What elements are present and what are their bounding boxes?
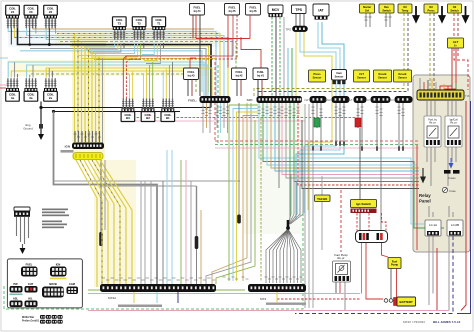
wire bundle: yellow vertical harness (75, 34, 133, 288)
black stripe overlays on yellow wires (15, 34, 227, 286)
wire: stub terminator mid-left (100, 160, 102, 233)
svg-text:Relay: Relay (419, 193, 431, 198)
inline green connector block (314, 118, 320, 127)
cam sensor connector (332, 70, 347, 85)
battery (394, 297, 416, 306)
junction dot engine ground (39, 106, 42, 109)
wire: thick gray harness to bottom left (54, 112, 158, 288)
wire bundle: ECU strip B drops to bottom (206, 103, 444, 284)
inline fuse circles before battery (384, 299, 388, 303)
arrow after oil press (439, 6, 444, 22)
svg-text:B1: B1 (166, 116, 170, 120)
svg-text:TPS: TPS (286, 28, 292, 32)
svg-text:Inj #6: Inj #6 (250, 9, 257, 13)
clt sensor plug (348, 96, 367, 103)
relay panel body (413, 75, 470, 252)
svg-text:S2K:: S2K: (247, 98, 254, 102)
injector drops to FUEL strip (188, 80, 262, 97)
coil connector T1 (152, 17, 166, 40)
svg-text:IAT: IAT (318, 9, 324, 13)
svg-text:ALT: ALT (453, 40, 459, 44)
svg-text:Fuse: Fuse (450, 189, 457, 193)
wire: ALT red feed (440, 48, 456, 90)
wire bundle: mid-left horizontal band into coil row C (inverted) (8, 56, 215, 97)
fuel injector 6 connector (246, 4, 261, 16)
bottom strip R (248, 284, 306, 305)
fuse symbol (442, 187, 456, 193)
knock sensor plug 2 (390, 96, 413, 103)
svg-text:Press: Press (313, 72, 321, 76)
svg-text:FUEL: FUEL (228, 5, 235, 9)
arrow after oil switch (463, 6, 468, 22)
svg-text:TACHO: TACHO (317, 197, 328, 201)
wire bundle: coil row D stubs up into band (123, 56, 172, 99)
wire stub ticks below ECU strip B (257, 107, 260, 113)
svg-text:CLT: CLT (348, 98, 353, 102)
coil connector B1 (inverted) (161, 99, 175, 122)
LC-1A module (425, 220, 441, 236)
tick stubs above bottom strip L (102, 278, 216, 280)
legend note text rows (42, 209, 69, 229)
svg-text:PW: PW (13, 282, 18, 286)
svg-text:B3: B3 (126, 116, 130, 120)
relay: ign coil relay (445, 116, 462, 147)
LC-0B module (447, 220, 463, 236)
svg-text:4a: 4a (11, 96, 15, 100)
yellow box: press sensor (309, 70, 326, 82)
press sensor plug (304, 96, 326, 103)
coil connector T2 (132, 17, 146, 40)
coil connector T3 (113, 17, 127, 40)
coil connector B3 (inverted) (121, 99, 135, 122)
svg-text:FUEL: FUEL (235, 70, 242, 74)
bottom strip L (MX3A main connector) (100, 284, 216, 307)
fan endpoint stubs (223, 277, 303, 279)
yellow box: knock sensor 1 (374, 70, 392, 82)
svg-text:#4: #4 (11, 10, 15, 14)
sensor drop end stubs (312, 141, 404, 151)
fuel injector 1 connector (253, 68, 268, 80)
coil connector 4a (inverted) (6, 78, 20, 101)
svg-text:3a: 3a (29, 96, 33, 100)
svg-text:BATTERY: BATTERY (400, 300, 413, 304)
IAT connector (313, 4, 329, 20)
coil connector 2a (inverted) (44, 78, 58, 101)
wire: arrows inside relay panel (421, 168, 425, 182)
fuel injector 2 connector (232, 68, 247, 80)
svg-text:Sensor: Sensor (357, 76, 366, 80)
svg-text:MCV: MCV (272, 8, 280, 12)
yellow box: ign switch (351, 200, 377, 214)
junction dots on ground bus (48, 43, 51, 46)
wire: bottom long horizontals (88, 290, 449, 311)
svg-text:Re..pr: Re..pr (450, 121, 456, 124)
coil connector B2 (inverted) (141, 99, 155, 122)
IGN gray bar (61, 150, 74, 153)
arrow after oil temp (413, 6, 418, 22)
svg-text:Inj #1: Inj #1 (257, 73, 264, 77)
svg-text:Fuel, Inj: Fuel, Inj (428, 120, 437, 122)
yellow box: Starter (360, 4, 375, 13)
wire: gray pair in yellow harness (102, 58, 104, 143)
svg-text:Press: Press (427, 8, 435, 12)
svg-text:IGN: IGN (65, 145, 70, 149)
coil connector 3a (inverted) (24, 78, 38, 101)
fuel pump relay (333, 253, 351, 282)
svg-text:CHT: CHT (28, 282, 34, 286)
legend: PW plug (10, 282, 23, 295)
legend: ASL plug (10, 297, 23, 308)
svg-text:MX3X / P3/0034: MX3X / P3/0034 (403, 320, 425, 324)
knock sensor plug 1 (366, 96, 391, 103)
fuel injector 4 connector (190, 4, 205, 16)
svg-text:Panel: Panel (419, 199, 431, 204)
wire: component ground lead arrow (22, 244, 24, 248)
svg-text:NOVB: NOVB (49, 282, 57, 286)
relay panel internal wires (417, 78, 456, 250)
svg-text:B2: B2 (146, 116, 150, 120)
svg-text:KIL: KIL (28, 297, 33, 301)
engine ground lead + arrow (40, 108, 42, 135)
svg-text:KN: KN (366, 98, 370, 102)
svg-text:Sensor: Sensor (335, 74, 344, 78)
relay panel yellow strip T16 (417, 90, 470, 100)
svg-text:Prelim Grnd01: Prelim Grnd01 (22, 320, 40, 323)
svg-text:CLT: CLT (359, 72, 364, 76)
yellow box: Oil Switch (448, 4, 462, 13)
svg-text:Temp: Temp (402, 8, 409, 12)
svg-text:Ign/Coil: Ign/Coil (450, 120, 458, 122)
svg-text:FUEL: FUEL (249, 5, 256, 9)
yellow box: Rev Switch (379, 4, 394, 13)
MCV connector (268, 5, 283, 17)
svg-text:Sensor: Sensor (378, 76, 387, 80)
yellow box: CLT sensor (354, 70, 370, 82)
coil connector C4 (6, 5, 20, 28)
yellow box: Oil Press (424, 4, 438, 13)
legend: IGN plug (50, 263, 67, 280)
svg-text:Inj #2: Inj #2 (236, 73, 243, 77)
wire: fan node into bottom strip R (266, 229, 301, 283)
svg-text:Inj #3: Inj #3 (188, 73, 195, 77)
wire stubs below ECU strip A (203, 103, 228, 133)
svg-text:Switch: Switch (382, 8, 391, 12)
TPS plug (286, 26, 308, 32)
wire bundle: knot feeder verticals (289, 175, 304, 225)
wire: TPS / IAT cyan L routes (296, 22, 344, 220)
svg-text:LC-0B: LC-0B (451, 223, 459, 227)
svg-text:T1: T1 (157, 22, 161, 26)
fuel injector 5 connector (225, 4, 240, 16)
svg-text:CAM: CAM (325, 98, 331, 102)
yellow box: knock sensor 2 (394, 70, 412, 82)
yellow box: Oil Temp (398, 4, 412, 13)
bottom-left connector glyph rows (40, 315, 63, 324)
svg-text:BILL JAMES 7-5-12: BILL JAMES 7-5-12 (433, 320, 461, 324)
sensor drop ticks (311, 107, 314, 113)
svg-text:FUEL:: FUEL: (188, 99, 197, 103)
svg-text:Ign Switch: Ign Switch (356, 202, 371, 206)
svg-text:Sensor: Sensor (398, 76, 407, 80)
svg-text:Sensor: Sensor (313, 76, 322, 80)
svg-text:Knock: Knock (399, 72, 407, 76)
wire bundle: relay panel bottom drops (295, 236, 453, 314)
wire: dashed horizontal pair to relay panel (215, 62, 419, 148)
wire bundle: coil row A horizontal band (8, 19, 236, 97)
svg-text:FUEL: FUEL (187, 70, 194, 74)
svg-text:T3: T3 (118, 22, 122, 26)
ECU strip A (200, 96, 231, 103)
svg-text:Knock: Knock (379, 72, 387, 76)
svg-text:Inj #5: Inj #5 (229, 9, 236, 13)
svg-text:#2: #2 (49, 10, 53, 14)
svg-text:KN: KN (390, 98, 394, 102)
wire bundle: long gray verticals mid right (305, 104, 322, 308)
yellow box: TACHO (315, 195, 331, 202)
wire: ign switch red drops (277, 190, 388, 299)
IGN yellow bar connector (73, 153, 103, 160)
ECU strip B (257, 96, 303, 103)
svg-text:T16: T16 (465, 94, 470, 98)
legend: KIL plug (25, 297, 38, 308)
svg-text:T2: T2 (137, 22, 141, 26)
cam sensor plug (325, 96, 350, 103)
fuel injector 3 connector (184, 68, 199, 80)
svg-text:Pump: Pump (391, 263, 399, 267)
legend: NOVB plug (42, 282, 64, 298)
svg-text:CAM: CAM (69, 282, 75, 286)
svg-text:Sol: Sol (365, 8, 369, 12)
legend: CHT plug (25, 282, 38, 293)
legend box (7, 259, 82, 308)
TPS connector (292, 5, 307, 14)
svg-text:FUEL: FUEL (26, 263, 33, 267)
left auxiliary connector w/ legs (14, 207, 30, 244)
svg-text:Ground: Ground (23, 127, 33, 131)
wire: left edge exit stubs (0, 58, 8, 88)
yellow box: fuel pump (388, 258, 401, 269)
haze tint under wire bands (8, 30, 304, 287)
wire bundle: verticals feeding bottom strip L (141, 150, 201, 284)
svg-text:TPS: TPS (295, 8, 302, 12)
relay panel right edge verticals (461, 101, 466, 311)
svg-text:Inj #4: Inj #4 (194, 9, 201, 13)
black bus overlay across yellow bundle (72, 44, 106, 46)
wire: coil ground bus thick black top (11, 19, 211, 97)
svg-text:FW: FW (304, 98, 309, 102)
svg-text:MX3A: MX3A (108, 296, 116, 300)
svg-text:Re..pr: Re..pr (337, 256, 344, 260)
wire: fuel pump drops (391, 269, 397, 300)
svg-text:IGN: IGN (56, 263, 61, 267)
wire: green tacho line (4, 213, 303, 309)
yellow box: ALT (448, 38, 464, 48)
wire: gray harness horizontals (54, 180, 241, 182)
svg-text:#3: #3 (29, 10, 33, 14)
inline red connector block (355, 118, 361, 127)
wire bundle: black ground bus mid (41, 102, 211, 112)
svg-text:LC-1A: LC-1A (429, 223, 437, 227)
wire: red dashed pair from injector 4b loop to coil row D (126, 15, 237, 59)
svg-text:2a: 2a (49, 96, 53, 100)
svg-text:FUEL: FUEL (193, 5, 200, 9)
wire bundle: top right dashed drops (254, 13, 468, 96)
wire: fuel pump relay drops (336, 281, 345, 311)
coil connector C3 (24, 5, 38, 28)
injector power daisy chain (190, 15, 261, 68)
wire bundle: TPS drops to ECU strip (288, 31, 296, 96)
stub terminator mid-center (237, 215, 241, 224)
svg-text:FUEL: FUEL (257, 70, 264, 74)
svg-text:MX3: MX3 (260, 297, 267, 301)
relay: fuel inj relay (424, 116, 441, 147)
key switch connector block (356, 231, 388, 243)
svg-text:ASL: ASL (13, 297, 19, 301)
IGN plug stub ticks (75, 131, 100, 142)
svg-text:Fuses: Fuses (448, 176, 456, 180)
legend: CAM plug (67, 282, 79, 294)
IGN multi plug (65, 143, 104, 150)
fuses pin pair upper (444, 170, 460, 180)
wire bundle: coil row B drops bending left into harness (84, 43, 164, 64)
svg-text:Switch: Switch (450, 8, 459, 12)
wire bundle: sensor connector drops (313, 103, 403, 231)
wire: stub terminator 2 (196, 186, 198, 237)
coil connector C2 (44, 5, 58, 28)
legend: FUEL plug (21, 263, 38, 277)
wire bundle: injector/MCV/TPS drops (193, 13, 304, 96)
wire: red/pink horizontal pair across centre (130, 108, 355, 121)
svg-text:Re..pr: Re..pr (429, 121, 435, 124)
